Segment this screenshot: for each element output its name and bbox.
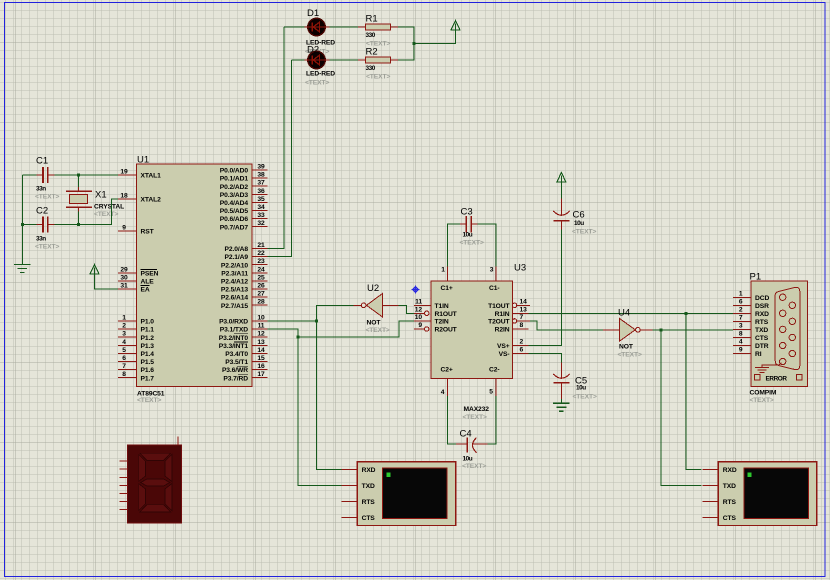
svg-text:XTAL2: XTAL2 (141, 197, 162, 204)
svg-text:RXD: RXD (362, 467, 376, 474)
svg-text:NOT: NOT (367, 320, 382, 327)
crystal X1 (66, 187, 124, 218)
wire C4 right to U3 pin 5 (487, 396, 496, 444)
svg-text:5: 5 (489, 389, 493, 396)
svg-text:P0.4/AD4: P0.4/AD4 (220, 200, 249, 207)
svg-text:X1: X1 (95, 190, 107, 201)
svg-text:4: 4 (122, 339, 126, 346)
svg-text:33: 33 (257, 212, 265, 219)
wire branch to U1 P3.0/RXD pin 10 (268, 320, 317, 322)
wire C2 left lead to ground rail (22, 224, 36, 226)
wire D2 cathode to R2 (330, 59, 358, 61)
svg-text:13: 13 (257, 339, 265, 346)
svg-text:T2IN: T2IN (435, 319, 449, 326)
svg-text:P1.1: P1.1 (141, 327, 155, 334)
power symbol VCC above R1/R2 (451, 21, 460, 31)
svg-text:33n: 33n (36, 236, 46, 243)
svg-text:2: 2 (739, 306, 743, 313)
svg-text:28: 28 (257, 299, 265, 306)
svg-text:ERROR: ERROR (766, 376, 788, 383)
svg-text:9: 9 (122, 225, 126, 232)
power symbol VCC at EA pin (90, 265, 99, 275)
svg-text:DSR: DSR (755, 303, 769, 310)
svg-text:D1: D1 (307, 8, 319, 19)
capacitor C3 10u (460, 207, 484, 247)
svg-text:1: 1 (739, 290, 743, 297)
U1 left pins: XTAL1 19, XTAL2 18, RST 9, PSEN 29, ALE 30, EA 31, P1.0-P1.7 pins 1-8 (118, 169, 161, 383)
svg-text:CTS: CTS (362, 515, 376, 522)
svg-text:23: 23 (257, 258, 265, 265)
svg-text:8: 8 (122, 371, 126, 378)
svg-text:6: 6 (739, 298, 743, 305)
svg-text:P1.6: P1.6 (141, 367, 155, 374)
svg-text:P1.2: P1.2 (141, 335, 155, 342)
svg-text:10u: 10u (576, 385, 586, 392)
wire crystal top lead to XTAL1 net (78, 175, 80, 187)
svg-text:15: 15 (257, 355, 265, 362)
svg-text:<TEXT>: <TEXT> (573, 394, 597, 401)
svg-text:C6: C6 (573, 210, 585, 221)
svg-text:P0.6/AD6: P0.6/AD6 (220, 216, 249, 223)
svg-text:9: 9 (739, 347, 743, 354)
svg-text:12: 12 (257, 331, 265, 338)
terminal VT1 virtual terminal (centre) (342, 462, 456, 526)
svg-text:2: 2 (520, 339, 524, 346)
svg-text:T1OUT: T1OUT (488, 303, 510, 310)
svg-text:<TEXT>: <TEXT> (572, 229, 596, 236)
svg-text:12: 12 (415, 306, 423, 313)
svg-text:P1.7: P1.7 (141, 375, 155, 382)
svg-text:<TEXT>: <TEXT> (460, 240, 484, 247)
svg-text:P3.1/TXD: P3.1/TXD (220, 327, 248, 334)
svg-text:21: 21 (257, 242, 265, 249)
svg-text:11: 11 (258, 323, 265, 330)
wire C1 left lead to ground rail (22, 174, 36, 176)
7-segment display (119, 436, 181, 523)
svg-text:18: 18 (120, 193, 128, 200)
svg-text:<TEXT>: <TEXT> (366, 74, 390, 81)
svg-text:P1.4: P1.4 (141, 351, 155, 358)
svg-text:P0.0/AD0: P0.0/AD0 (220, 168, 249, 175)
wire C3 right to U3 pin 3 (478, 224, 497, 266)
wire P2.0/A8 to D1 (268, 27, 285, 249)
svg-text:35: 35 (257, 196, 265, 203)
capacitor C2 (35, 206, 59, 251)
svg-text:R2OUT: R2OUT (435, 327, 458, 334)
svg-text:P0.1/AD1: P0.1/AD1 (220, 176, 249, 183)
svg-text:LED-RED: LED-RED (306, 71, 335, 78)
svg-text:CRYSTAL: CRYSTAL (94, 204, 124, 211)
svg-text:9: 9 (418, 322, 422, 329)
wire C5 bottom to ground (560, 399, 562, 404)
svg-text:C2+: C2+ (441, 367, 453, 374)
svg-text:P3.2/INT0: P3.2/INT0 (219, 335, 249, 342)
IC U1 AT89C51 microcontroller (137, 164, 253, 387)
U3 left pins: T1IN 11, R1OUT 12, T2IN 10, R2OUT 9 (414, 298, 458, 333)
svg-text:R1: R1 (366, 14, 378, 25)
svg-text:C3: C3 (461, 207, 473, 218)
U3 top pins 1 C1+ and 3 C1- (441, 267, 500, 293)
wire U4 output to P1 TXD (653, 329, 734, 331)
wire C4 left to U3 pin 4 (448, 396, 457, 444)
svg-text:33n: 33n (36, 186, 46, 193)
svg-text:330: 330 (366, 32, 376, 39)
P1 DB9 connector graphic (775, 287, 800, 369)
svg-text:C4: C4 (460, 429, 472, 440)
ground symbol below C1/C2 (14, 265, 30, 273)
svg-text:P3.0/RXD: P3.0/RXD (219, 319, 248, 326)
svg-text:P1.3: P1.3 (141, 343, 155, 350)
svg-text:3: 3 (739, 322, 743, 329)
svg-text:C1: C1 (36, 156, 48, 167)
capacitor C4 10u (polarised) (456, 429, 487, 471)
junction node XTAL2/crystal (77, 223, 80, 226)
wire P2.1/A9 to D2 (268, 60, 292, 257)
svg-text:TXD: TXD (755, 327, 768, 334)
svg-text:P1.0: P1.0 (141, 319, 155, 326)
svg-text:P2.4/A12: P2.4/A12 (221, 279, 248, 286)
svg-text:330: 330 (366, 65, 376, 72)
svg-text:P3.4/T0: P3.4/T0 (225, 351, 248, 358)
svg-text:P3.3/INT1: P3.3/INT1 (219, 343, 249, 350)
wire XTAL2 net: C2 to U1 pin 18 (55, 199, 119, 225)
svg-text:COMPIM: COMPIM (750, 390, 777, 397)
svg-text:10: 10 (257, 315, 265, 322)
wire power rail to VCC arrow (414, 30, 456, 44)
svg-text:26: 26 (257, 283, 265, 290)
svg-text:1: 1 (122, 315, 126, 322)
svg-text:C1+: C1+ (441, 285, 453, 292)
svg-text:<TEXT>: <TEXT> (366, 327, 390, 334)
junction RXD net tee (315, 320, 318, 323)
svg-text:RXD: RXD (755, 311, 769, 318)
svg-text:1: 1 (441, 267, 445, 274)
wire D2 anode from P2.1 (292, 59, 305, 61)
svg-text:MAX232: MAX232 (464, 406, 490, 413)
svg-text:RTS: RTS (723, 499, 737, 506)
svg-text:T1IN: T1IN (435, 303, 449, 310)
svg-text:P2.7/A15: P2.7/A15 (221, 303, 248, 310)
svg-text:10u: 10u (463, 232, 473, 239)
wire TXD net to U3 T2IN pin 10 (298, 321, 414, 337)
wire VCC arrow to U1 EA pin 31 (95, 273, 119, 289)
wire U3 T2OUT to U4 input (530, 321, 603, 330)
svg-text:RI: RI (755, 351, 762, 358)
wire XTAL1 net: C1 to U1 pin 19 (55, 174, 119, 176)
svg-text:<TEXT>: <TEXT> (463, 414, 487, 421)
P1 left pins 1,6,2,7,3,8,4,9 (DCD,DSR,RXD,RTS,TXD,CTS,DTR,RI) (733, 290, 769, 358)
svg-text:10u: 10u (463, 456, 473, 463)
svg-text:T2OUT: T2OUT (488, 319, 510, 326)
svg-text:EA: EA (141, 287, 150, 294)
svg-text:RTS: RTS (755, 319, 769, 326)
svg-text:7: 7 (122, 363, 126, 370)
svg-text:2: 2 (122, 323, 126, 330)
svg-text:U3: U3 (514, 263, 526, 274)
svg-text:P3.5/T1: P3.5/T1 (225, 359, 248, 366)
junction TXD/COMPIM tee (660, 328, 663, 331)
svg-text:P0.5/AD5: P0.5/AD5 (220, 208, 249, 215)
svg-text:27: 27 (257, 291, 265, 298)
svg-text:37: 37 (257, 180, 265, 187)
svg-text:XTAL1: XTAL1 (141, 173, 162, 180)
svg-text:10: 10 (415, 314, 423, 321)
wire U2 output to P3.0 and terminal RXD (317, 305, 354, 469)
svg-text:<TEXT>: <TEXT> (618, 352, 642, 359)
junction ground rail / C2 (21, 223, 24, 226)
wire D1 anode from P2.0 (284, 26, 304, 28)
U1 right pins: P0.0-P0.7 pins 39-32, P2.0-P2.7 pins 21-28, P3.0-P3.7 pins 10-17 (219, 164, 268, 383)
node U3 origin marker (412, 286, 420, 294)
svg-text:<TEXT>: <TEXT> (305, 80, 329, 87)
svg-text:17: 17 (257, 371, 265, 378)
U3 bottom pins 4 C2+ and 5 C2- (441, 367, 500, 397)
svg-text:6: 6 (122, 355, 126, 362)
svg-text:3: 3 (122, 331, 126, 338)
svg-text:R1OUT: R1OUT (435, 311, 458, 318)
IC U3 MAX232 (431, 281, 512, 379)
svg-text:P3.7/RD: P3.7/RD (223, 375, 248, 382)
wire VCC arrow to C6 top (560, 182, 562, 199)
diode D1 LED-RED (304, 8, 330, 36)
svg-text:P3.6/WR: P3.6/WR (222, 367, 248, 374)
svg-text:P0.7/AD7: P0.7/AD7 (220, 224, 249, 231)
svg-text:P1.5: P1.5 (141, 359, 155, 366)
P1 internal ground symbol (755, 363, 782, 373)
svg-text:8: 8 (739, 330, 743, 337)
svg-text:16: 16 (257, 363, 265, 370)
connector P1 COMPIM (751, 281, 808, 386)
svg-text:PSEN: PSEN (141, 271, 159, 278)
svg-text:13: 13 (520, 306, 528, 313)
wire crystal bottom lead to XTAL2 net (78, 212, 80, 225)
svg-text:CTS: CTS (723, 515, 737, 522)
svg-text:U4: U4 (618, 308, 630, 319)
wire ground rail vertical (21, 175, 23, 264)
diode D2 LED-RED (304, 45, 330, 69)
svg-text:U2: U2 (367, 283, 379, 294)
svg-text:<TEXT>: <TEXT> (35, 244, 59, 251)
svg-text:CTS: CTS (755, 335, 769, 342)
svg-text:TXD: TXD (362, 483, 375, 490)
U3 right pins: T1OUT 14, R1IN 13, T2OUT 7, R2IN 8, VS+ 2, VS- 6 (488, 298, 530, 358)
power symbol VCC above C6 (557, 173, 566, 183)
svg-text:30: 30 (120, 275, 128, 282)
svg-text:14: 14 (257, 347, 265, 354)
svg-text:NOT: NOT (619, 344, 634, 351)
svg-text:11: 11 (415, 298, 422, 305)
svg-text:3: 3 (490, 267, 494, 274)
svg-text:<TEXT>: <TEXT> (462, 463, 486, 470)
wire U3 VS- pin 6 to C5 (529, 354, 562, 363)
svg-text:P2.5/A13: P2.5/A13 (221, 287, 248, 294)
wire C6 bottom to U3 VS+ pin 2 (529, 230, 562, 346)
svg-text:22: 22 (257, 250, 265, 257)
svg-text:P2.2/A10: P2.2/A10 (221, 262, 248, 269)
svg-text:P2.6/A14: P2.6/A14 (221, 295, 248, 302)
svg-text:4: 4 (739, 339, 743, 346)
wire TXD branch to right terminal (661, 330, 702, 486)
capacitor C1 (35, 156, 59, 201)
svg-text:RXD: RXD (723, 467, 737, 474)
svg-text:P1: P1 (750, 272, 762, 283)
ground symbol below C5 (553, 403, 569, 411)
wire U1 P3.1/TXD to terminal TXD (268, 329, 342, 485)
inverter U4 NOT gate (pointing right) (603, 308, 653, 359)
capacitor C5 10u (polarised) (553, 363, 597, 401)
svg-text:R1IN: R1IN (495, 311, 510, 318)
svg-text:R2IN: R2IN (495, 327, 510, 334)
svg-text:<TEXT>: <TEXT> (137, 397, 161, 404)
svg-text:C2-: C2- (489, 367, 499, 374)
junction power rail tee (413, 42, 416, 45)
wire R1/R2 right ends to power rail (398, 27, 414, 60)
svg-text:P2.1/A9: P2.1/A9 (225, 254, 249, 261)
svg-text:29: 29 (120, 267, 128, 274)
svg-text:ALE: ALE (141, 279, 155, 286)
svg-text:6: 6 (520, 347, 524, 354)
svg-text:36: 36 (257, 188, 265, 195)
wire C3 left to U3 pin 1 (448, 224, 461, 266)
svg-text:R2: R2 (366, 47, 378, 58)
svg-text:8: 8 (520, 322, 524, 329)
junction TXD net tee (297, 336, 300, 339)
svg-text:RST: RST (141, 229, 155, 236)
svg-text:P0.3/AD3: P0.3/AD3 (220, 192, 249, 199)
svg-text:P2.3/A11: P2.3/A11 (221, 270, 248, 277)
svg-text:TXD: TXD (723, 483, 736, 490)
junction RXD/COMPIM tee (684, 312, 687, 315)
svg-text:VS-: VS- (499, 351, 510, 358)
svg-text:<TEXT>: <TEXT> (35, 194, 59, 201)
svg-text:7: 7 (739, 314, 743, 321)
svg-text:32: 32 (257, 220, 265, 227)
svg-text:U1: U1 (137, 155, 149, 166)
svg-text:VS+: VS+ (497, 343, 510, 350)
svg-text:5: 5 (122, 347, 126, 354)
wire D1 cathode to R1 (330, 26, 358, 28)
svg-text:P2.0/A8: P2.0/A8 (225, 246, 249, 253)
junction node XTAL1/crystal (77, 174, 80, 177)
svg-text:7: 7 (520, 314, 524, 321)
svg-text:RTS: RTS (362, 499, 376, 506)
svg-text:<TEXT>: <TEXT> (750, 397, 774, 404)
svg-text:14: 14 (520, 298, 528, 305)
svg-text:34: 34 (257, 204, 265, 211)
svg-text:DCD: DCD (755, 295, 769, 302)
svg-text:39: 39 (257, 164, 265, 171)
svg-text:C2: C2 (36, 206, 48, 217)
svg-text:24: 24 (257, 266, 265, 273)
svg-text:D2: D2 (307, 45, 319, 56)
resistor R2 330 (358, 47, 398, 81)
P1 ERROR indicator row (755, 375, 802, 383)
wire U3 R1IN to P1 RXD (529, 312, 734, 314)
svg-text:P0.2/AD2: P0.2/AD2 (220, 184, 249, 191)
svg-text:4: 4 (441, 389, 445, 396)
wire RXD branch to right terminal (686, 313, 702, 469)
wire U2 input to U3 R1OUT pin 12 (399, 305, 414, 313)
svg-text:19: 19 (120, 169, 128, 176)
svg-text:<TEXT>: <TEXT> (94, 211, 118, 218)
capacitor C6 10u (polarised) (553, 199, 596, 236)
svg-text:38: 38 (257, 172, 265, 179)
inverter U2 NOT gate (pointing left) (354, 283, 399, 334)
resistor R1 330 (358, 14, 398, 48)
svg-text:31: 31 (120, 283, 128, 290)
svg-text:DTR: DTR (755, 343, 769, 350)
svg-text:10u: 10u (574, 220, 584, 227)
svg-text:C1-: C1- (489, 285, 499, 292)
svg-text:25: 25 (257, 274, 265, 281)
terminal VT2 virtual terminal (right) (703, 462, 817, 526)
